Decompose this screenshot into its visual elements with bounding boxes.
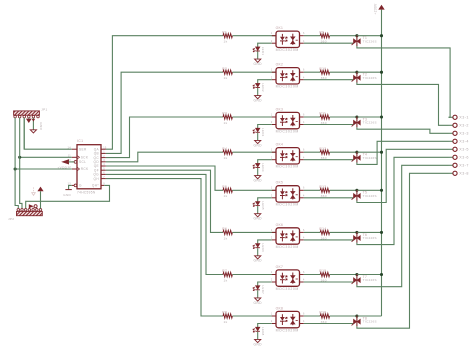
svg-text:X3-5: X3-5 xyxy=(459,148,469,152)
node rail junction xyxy=(380,189,383,192)
node rail junction xyxy=(380,231,383,234)
svg-text:1: 1 xyxy=(271,149,273,152)
svg-text:R11: R11 xyxy=(319,112,326,116)
svg-text:OK7: OK7 xyxy=(276,265,284,269)
wire xyxy=(357,173,449,328)
svg-text:R15: R15 xyxy=(319,269,326,273)
wire power rail xyxy=(381,10,383,316)
svg-text:3: 3 xyxy=(103,159,105,162)
wire xyxy=(330,274,357,276)
ground xyxy=(255,339,261,342)
wire xyxy=(357,149,449,202)
connector JP2 pin 3 xyxy=(24,209,27,212)
svg-text:MOC3020M: MOC3020M xyxy=(276,245,299,249)
wire xyxy=(232,35,276,37)
node rail junction xyxy=(380,151,383,154)
IC1 pin G xyxy=(72,184,74,186)
wire xyxy=(106,166,223,190)
wire xyxy=(257,88,259,96)
wire xyxy=(232,231,276,233)
triac T8 xyxy=(353,319,357,325)
wire xyxy=(232,315,276,317)
IC1 pin QA xyxy=(101,148,106,150)
triac T4 xyxy=(353,155,357,161)
ground IC xyxy=(65,189,71,191)
resistor R2 xyxy=(223,70,232,74)
wire xyxy=(304,116,320,118)
connector JP2 xyxy=(17,211,43,215)
svg-text:4: 4 xyxy=(303,237,305,240)
node MT2-7 xyxy=(355,273,358,276)
connector JP2 pin 2 xyxy=(21,209,24,212)
wire xyxy=(357,35,382,37)
connector pin X3-3 xyxy=(449,132,453,134)
svg-text:TIC226S: TIC226S xyxy=(363,236,377,240)
svg-text:R3: R3 xyxy=(222,112,227,116)
svg-text:1: 1 xyxy=(271,69,273,72)
svg-text:LED7: LED7 xyxy=(261,286,265,295)
ground xyxy=(255,59,261,62)
wire xyxy=(304,42,354,44)
svg-text:R10: R10 xyxy=(319,67,326,71)
svg-text:R9: R9 xyxy=(319,30,324,34)
svg-text:1k: 1k xyxy=(224,40,228,44)
svg-text:TIC226S: TIC226S xyxy=(363,121,377,125)
svg-text:1k: 1k xyxy=(224,76,228,80)
svg-text:SCL: SCL xyxy=(79,160,86,164)
IC1 pin QC xyxy=(101,157,106,159)
triac T5 xyxy=(353,193,357,199)
triac T2 xyxy=(353,75,357,81)
node MT2-8 xyxy=(355,314,358,317)
wire xyxy=(69,185,72,189)
wire xyxy=(304,159,354,161)
svg-text:GND: GND xyxy=(63,193,71,197)
optocoupler OK5 xyxy=(276,186,300,202)
wire xyxy=(15,118,18,209)
svg-text:R5: R5 xyxy=(222,185,227,189)
svg-text:2: 2 xyxy=(271,279,273,282)
wire xyxy=(232,189,276,191)
svg-text:MOC3020M: MOC3020M xyxy=(276,287,299,291)
LED LED8 xyxy=(256,327,260,331)
svg-text:GND: GND xyxy=(39,122,43,130)
svg-text:2: 2 xyxy=(271,156,273,159)
wire xyxy=(304,281,354,283)
svg-text:4: 4 xyxy=(303,40,305,43)
svg-text:4: 4 xyxy=(303,156,305,159)
connector pin X3-6 xyxy=(449,156,453,158)
svg-text:7: 7 xyxy=(103,176,105,179)
resistor R4 xyxy=(223,150,232,154)
svg-text:R1: R1 xyxy=(222,30,227,34)
node xyxy=(18,156,21,159)
diode D1 xyxy=(29,204,34,208)
wire xyxy=(106,174,223,274)
connector pin X3-5 xyxy=(449,148,453,150)
svg-text:+230V: +230V xyxy=(373,3,377,15)
triac T6 xyxy=(353,235,357,241)
wire xyxy=(258,125,272,129)
svg-text:GND: GND xyxy=(254,62,263,66)
wire xyxy=(258,198,272,202)
LED LED3 xyxy=(256,128,260,132)
svg-text:4: 4 xyxy=(303,121,305,124)
svg-text:2: 2 xyxy=(271,76,273,79)
connector pin X3-1 xyxy=(449,116,453,118)
node rail junction xyxy=(380,273,383,276)
LED LED4 xyxy=(256,163,260,167)
wire xyxy=(106,117,223,158)
IC1 pin SER xyxy=(72,148,77,150)
IC1 pin QH xyxy=(101,178,106,180)
node rail junction xyxy=(380,115,383,118)
ground xyxy=(255,214,261,217)
connector JP2 pin 7 xyxy=(39,209,42,212)
svg-text:1k: 1k xyxy=(224,278,228,282)
wire xyxy=(330,189,357,191)
ghost arrow xyxy=(32,193,36,196)
svg-text:MOC3020M: MOC3020M xyxy=(276,48,299,52)
svg-text:TIC226S: TIC226S xyxy=(363,278,377,282)
svg-text:TIC226S: TIC226S xyxy=(363,156,377,160)
IC1 pin QD xyxy=(101,161,106,163)
svg-text:4: 4 xyxy=(303,279,305,282)
resistor R10 xyxy=(320,70,329,74)
connector JP1 pin 6 xyxy=(37,115,40,118)
IC1 pin QE xyxy=(101,165,106,167)
svg-text:6: 6 xyxy=(303,229,305,232)
svg-text:4: 4 xyxy=(103,163,105,166)
svg-text:R7: R7 xyxy=(222,269,227,273)
svg-text:4: 4 xyxy=(303,194,305,197)
connector JP1 pin 5 xyxy=(32,115,35,118)
svg-text:1: 1 xyxy=(271,312,273,315)
svg-text:R2: R2 xyxy=(222,67,227,71)
svg-text:X3-4: X3-4 xyxy=(459,140,469,144)
wire xyxy=(304,124,354,126)
IC1 pin QH* xyxy=(101,184,104,186)
svg-text:QH*: QH* xyxy=(92,184,99,188)
wire xyxy=(330,315,357,317)
wire xyxy=(106,152,223,162)
ground xyxy=(255,256,261,259)
wire xyxy=(257,52,259,60)
resistor R16 xyxy=(320,314,329,318)
wire xyxy=(304,315,320,317)
wire xyxy=(357,141,449,164)
connector JP2 pin 5 xyxy=(32,209,35,212)
wire QH* chain xyxy=(26,185,110,208)
node rail junction xyxy=(380,34,383,37)
svg-text:1k: 1k xyxy=(224,121,228,125)
resistor R15 xyxy=(320,272,329,276)
svg-text:GND: GND xyxy=(254,143,263,147)
svg-text:X3-8: X3-8 xyxy=(459,172,469,176)
svg-text:1k: 1k xyxy=(224,320,228,324)
supply +5V arrow xyxy=(37,187,43,192)
svg-text:2: 2 xyxy=(271,121,273,124)
IC1 pin QG xyxy=(101,173,106,175)
wire xyxy=(257,248,259,256)
svg-text:GND: GND xyxy=(254,179,263,183)
svg-text:GND: GND xyxy=(254,301,263,305)
svg-text:R4: R4 xyxy=(222,147,227,151)
wire xyxy=(330,71,357,73)
node MT2-5 xyxy=(355,189,358,192)
wire xyxy=(106,179,223,316)
svg-text:TIC226S: TIC226S xyxy=(363,320,377,324)
optocoupler OK4 xyxy=(276,148,300,164)
wire xyxy=(257,133,259,141)
resistor R5 xyxy=(223,188,232,192)
connector JP1 pin 2 xyxy=(18,115,21,118)
wire xyxy=(357,82,449,125)
wire xyxy=(357,151,382,153)
wire xyxy=(258,282,272,286)
svg-text:6: 6 xyxy=(303,149,305,152)
wire xyxy=(257,332,259,340)
wire xyxy=(357,189,382,191)
wire xyxy=(232,274,276,276)
svg-text:OK8: OK8 xyxy=(276,306,284,310)
connector JP2 pin 1 xyxy=(17,209,20,212)
optocoupler OK2 xyxy=(276,68,300,84)
wire xyxy=(258,240,272,244)
svg-text:X3-3: X3-3 xyxy=(459,132,469,136)
svg-text:MOC3020M: MOC3020M xyxy=(276,203,299,207)
svg-text:1k: 1k xyxy=(224,156,228,160)
svg-text:2: 2 xyxy=(271,320,273,323)
wire xyxy=(258,43,272,47)
wire xyxy=(357,315,382,317)
svg-text:LED2: LED2 xyxy=(261,83,265,92)
wire xyxy=(304,274,320,276)
triac T1 xyxy=(353,38,357,44)
wire xyxy=(357,157,449,244)
wire xyxy=(258,80,272,84)
svg-text:2: 2 xyxy=(271,40,273,43)
ground xyxy=(255,96,261,99)
svg-text:LED8: LED8 xyxy=(261,327,265,336)
svg-text:X3-1: X3-1 xyxy=(459,116,469,120)
wire SCK xyxy=(20,156,72,158)
svg-text:X3-2: X3-2 xyxy=(459,124,469,128)
svg-text:1k: 1k xyxy=(224,236,228,240)
svg-text:15: 15 xyxy=(103,146,107,149)
svg-text:X3-6: X3-6 xyxy=(459,156,469,160)
connector JP2 pin 4 xyxy=(28,209,31,212)
ground xyxy=(30,130,36,133)
connector pin X3-2 xyxy=(449,124,453,126)
LED LED1 xyxy=(256,47,260,51)
svg-text:6: 6 xyxy=(303,271,305,274)
optocoupler OK1 xyxy=(276,31,300,47)
svg-text:6: 6 xyxy=(303,312,305,315)
wire xyxy=(106,72,223,153)
IC1 pin SCL xyxy=(72,161,74,163)
svg-text:JP1: JP1 xyxy=(41,108,47,112)
svg-text:MOC3020M: MOC3020M xyxy=(276,129,299,133)
resistor R9 xyxy=(320,34,329,38)
resistor R7 xyxy=(223,272,232,276)
resistor R6 xyxy=(223,230,232,234)
connector pin X3-8 xyxy=(449,172,453,174)
IC1 pin QB xyxy=(101,152,106,154)
wire xyxy=(304,189,320,191)
wire xyxy=(304,323,354,325)
ground xyxy=(255,176,261,179)
svg-text:6: 6 xyxy=(103,172,105,175)
wire xyxy=(258,324,272,328)
wire xyxy=(257,168,259,176)
optocoupler OK6 xyxy=(276,228,300,244)
svg-text:JP2: JP2 xyxy=(8,217,14,221)
svg-text:6: 6 xyxy=(303,69,305,72)
wire xyxy=(304,231,320,233)
node MT2-6 xyxy=(355,231,358,234)
svg-text:MOC3020M: MOC3020M xyxy=(276,328,299,332)
optocoupler OK7 xyxy=(276,270,300,286)
svg-text:LED1: LED1 xyxy=(261,47,265,56)
svg-text:2: 2 xyxy=(103,155,105,158)
resistor R1 xyxy=(223,34,232,38)
svg-text:1: 1 xyxy=(271,187,273,190)
svg-text:RCK: RCK xyxy=(81,167,89,171)
svg-text:1: 1 xyxy=(271,32,273,35)
svg-text:2: 2 xyxy=(271,237,273,240)
svg-text:OK2: OK2 xyxy=(276,63,284,67)
connector pin X3-7 xyxy=(449,164,453,166)
wire xyxy=(330,151,357,153)
connector pin X3-4 xyxy=(449,140,453,142)
svg-text:LED3: LED3 xyxy=(261,128,265,137)
svg-text:4: 4 xyxy=(303,320,305,323)
wire xyxy=(20,118,22,209)
svg-text:R12: R12 xyxy=(319,147,326,151)
connector JP1 pin 3 xyxy=(23,115,26,118)
svg-text:4: 4 xyxy=(303,76,305,79)
triac T7 xyxy=(353,277,357,283)
node MT2-3 xyxy=(355,115,358,118)
svg-text:OK1: OK1 xyxy=(276,26,284,30)
svg-text:QH: QH xyxy=(94,177,100,181)
wire xyxy=(257,206,259,214)
LED LED2 xyxy=(256,83,260,87)
svg-text:MOC3020M: MOC3020M xyxy=(276,165,299,169)
wire xyxy=(357,165,449,286)
svg-text:R14: R14 xyxy=(319,227,326,231)
svg-text:R16: R16 xyxy=(319,311,326,315)
svg-text:GND: GND xyxy=(254,217,263,221)
resistor R11 xyxy=(320,115,329,119)
node xyxy=(14,167,17,170)
node MT2-1 xyxy=(355,34,358,37)
power supply +230V arrow xyxy=(378,5,384,10)
wire xyxy=(357,46,450,117)
svg-text:GND: GND xyxy=(254,342,263,346)
supply arrow pin4 xyxy=(28,118,30,119)
wire xyxy=(357,71,382,73)
wire xyxy=(304,197,354,199)
ground xyxy=(255,298,261,301)
ground xyxy=(255,140,261,143)
supply flag VDD xyxy=(61,159,69,164)
wire xyxy=(232,116,276,118)
resistor R13 xyxy=(320,188,329,192)
optocoupler OK3 xyxy=(276,112,300,128)
wire xyxy=(330,35,357,37)
wire xyxy=(357,274,382,276)
wire xyxy=(23,118,25,150)
svg-text:LED4: LED4 xyxy=(261,163,265,172)
svg-text:R13: R13 xyxy=(319,185,326,189)
svg-text:LED5: LED5 xyxy=(261,201,265,210)
wire xyxy=(304,239,354,241)
svg-text:1: 1 xyxy=(271,113,273,116)
supply pin5 + ground xyxy=(32,118,34,130)
svg-text:OK4: OK4 xyxy=(276,143,284,147)
resistor R14 xyxy=(320,230,329,234)
wire xyxy=(330,116,357,118)
svg-text:TIC226S: TIC226S xyxy=(363,76,377,80)
svg-text:1: 1 xyxy=(271,271,273,274)
svg-text:GND: GND xyxy=(254,99,263,103)
svg-text:X3-7: X3-7 xyxy=(459,164,469,168)
svg-text:6: 6 xyxy=(303,187,305,190)
svg-text:6: 6 xyxy=(303,113,305,116)
svg-text:2: 2 xyxy=(271,194,273,197)
svg-text:LED6: LED6 xyxy=(261,243,265,252)
wire xyxy=(357,116,382,118)
wire xyxy=(304,151,320,153)
svg-text:1: 1 xyxy=(103,151,105,154)
svg-text:R6: R6 xyxy=(222,227,227,231)
node MT2-4 xyxy=(355,151,358,154)
resistor R8 xyxy=(223,314,232,318)
resistor R3 xyxy=(223,115,232,119)
connector JP1 pin 1 xyxy=(14,115,17,118)
LED LED7 xyxy=(256,286,260,290)
svg-text:TIC226S: TIC226S xyxy=(363,39,377,43)
svg-text:SCK: SCK xyxy=(81,156,89,160)
svg-text:6: 6 xyxy=(303,32,305,35)
IC1 pin SCK xyxy=(72,156,77,158)
optocoupler OK8 xyxy=(276,311,300,327)
svg-text:74HC595N: 74HC595N xyxy=(77,190,96,194)
node rail junction xyxy=(380,71,383,74)
wire xyxy=(232,151,276,153)
svg-text:OK3: OK3 xyxy=(276,107,284,111)
triac T3 xyxy=(353,120,357,126)
wire xyxy=(257,290,259,298)
wire SER xyxy=(24,116,72,149)
wire xyxy=(304,79,354,81)
LED LED5 xyxy=(256,202,260,206)
wire xyxy=(232,71,276,73)
IC1 pin RCK xyxy=(72,168,77,170)
wire xyxy=(304,71,320,73)
wire RCK xyxy=(15,168,72,170)
wire xyxy=(357,127,449,133)
wire xyxy=(106,170,223,232)
svg-text:OK5: OK5 xyxy=(276,181,284,185)
connector JP2 pin 6 xyxy=(36,209,39,212)
node MT2-2 xyxy=(355,71,358,74)
wire xyxy=(258,160,272,164)
resistor R12 xyxy=(320,150,329,154)
svg-text:5: 5 xyxy=(103,167,105,170)
